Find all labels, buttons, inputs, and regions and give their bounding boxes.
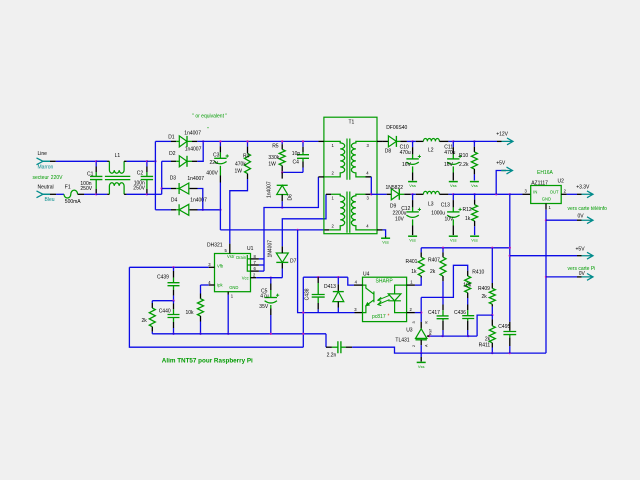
junction D6 to drain row <box>281 206 283 208</box>
svg-text:1W: 1W <box>268 161 276 167</box>
svg-text:1n4007: 1n4007 <box>185 147 202 153</box>
node C439/C440/2k <box>152 300 173 302</box>
svg-text:22u: 22u <box>210 160 219 166</box>
junction R409 top <box>491 247 493 249</box>
capacitor C1 100n 250V <box>95 161 97 166</box>
junction C3 top <box>219 140 221 142</box>
svg-text:L3: L3 <box>428 202 434 208</box>
U1 pin 1 GND <box>227 292 229 295</box>
aux pin2 stub <box>324 229 329 231</box>
svg-text:2.2n: 2.2n <box>327 352 337 358</box>
svg-text:470u: 470u <box>444 150 455 156</box>
junction R5 top <box>281 140 283 142</box>
svg-text:secteur: secteur <box>33 175 50 181</box>
svg-text:1n4007: 1n4007 <box>187 176 204 182</box>
wire Vfb row <box>129 266 208 268</box>
svg-text:Vfb: Vfb <box>217 264 224 269</box>
shunt regulator U3 TL431 <box>420 322 422 329</box>
svg-text:C1: C1 <box>87 171 94 177</box>
U2 GND wire down <box>545 204 547 210</box>
junction node A <box>154 160 156 162</box>
svg-text:2k: 2k <box>430 269 436 275</box>
U4 phototransistor <box>363 285 374 313</box>
wire R5/C4 bottom row <box>282 171 303 173</box>
U2 OUT wire and +3.3V output <box>561 193 567 195</box>
svg-text:C440: C440 <box>159 308 171 314</box>
junction vert1 <box>296 229 298 231</box>
capacitor C436 <box>467 298 469 305</box>
svg-text:TL431: TL431 <box>395 338 409 344</box>
svg-text:10k: 10k <box>186 310 195 316</box>
svg-text:0V: 0V <box>578 213 585 219</box>
diode D8 DF06S40 <box>383 140 389 142</box>
svg-text:500mA: 500mA <box>65 199 82 205</box>
wire Line to bridge node A <box>147 160 156 162</box>
junction ref <box>428 335 430 337</box>
svg-text:10k: 10k <box>463 282 472 288</box>
U1 pin 4 Ipk <box>209 284 215 286</box>
U1 Vcc row A <box>256 277 282 279</box>
svg-text:16V: 16V <box>444 162 454 168</box>
svg-text:D3: D3 <box>170 176 177 182</box>
svg-text:250V: 250V <box>133 185 145 191</box>
svg-text:L1: L1 <box>115 153 121 159</box>
resistor R410 10k <box>421 265 468 297</box>
junction +5V Pi <box>509 255 511 257</box>
resistor R407 2k <box>442 248 444 253</box>
svg-text:2k: 2k <box>482 294 488 300</box>
svg-text:D2: D2 <box>169 151 176 157</box>
junction R411 rail <box>491 352 493 354</box>
svg-text:1000u: 1000u <box>431 211 445 217</box>
diode D9 1N5822 <box>387 193 392 195</box>
svg-text:R10: R10 <box>459 153 468 159</box>
svg-text:470k: 470k <box>235 161 246 167</box>
svg-text:D1: D1 <box>168 135 175 141</box>
svg-text:D7: D7 <box>290 258 297 264</box>
ground C11 <box>449 181 458 183</box>
T1 core top <box>347 139 350 180</box>
svg-text:Alim TNT57 pour Raspberry Pi: Alim TNT57 pour Raspberry Pi <box>162 358 253 365</box>
junction D2 to bus <box>202 140 204 142</box>
svg-text:C436: C436 <box>454 310 466 316</box>
svg-text:1k: 1k <box>411 269 417 275</box>
junction C436 ref row <box>467 335 469 337</box>
svg-text:+3.3V: +3.3V <box>576 185 590 191</box>
svg-text:U3: U3 <box>406 328 413 334</box>
svg-text:T1: T1 <box>349 119 355 125</box>
T1 aux winding (bottom-left) <box>329 194 345 230</box>
svg-text:Vcc: Vcc <box>242 276 249 281</box>
junction divider mid <box>172 300 174 302</box>
IC U2 AZ1117 (EH16A) <box>531 186 562 204</box>
svg-text:R5: R5 <box>272 143 279 149</box>
wire C3 bottom to neg rail <box>219 183 221 230</box>
svg-text:pc817: pc817 <box>372 314 386 320</box>
T1 primary winding top <box>318 140 324 142</box>
left feedback loop wire <box>129 267 303 347</box>
svg-text:10V: 10V <box>395 216 405 222</box>
svg-text:OUT: OUT <box>550 190 559 195</box>
feedback row B <box>303 276 348 278</box>
T1 secondary winding top <box>351 141 377 177</box>
svg-text:+12V: +12V <box>496 131 508 137</box>
U1 pin 5 Vstr <box>229 244 231 254</box>
U1 pin 2 Vcc <box>251 277 257 279</box>
feedback top row <box>421 247 510 249</box>
U4 pin4 stub <box>354 284 363 286</box>
junction TL431 anode rail <box>420 352 422 354</box>
svg-text:D413: D413 <box>324 284 336 290</box>
wire pin4 to feedback row <box>348 277 354 285</box>
junction C5 rail <box>270 333 272 335</box>
svg-text:Vss: Vss <box>471 183 478 188</box>
bridge vertical B <box>161 161 163 194</box>
optocoupler U4 pc817 <box>363 277 407 321</box>
junction 0V tap <box>545 219 547 221</box>
diode D3 1n4007 <box>162 188 171 190</box>
ground C10 <box>408 181 417 183</box>
svg-text:Marron: Marron <box>38 164 54 170</box>
junction C440 rail <box>172 333 174 335</box>
resistor 2k left <box>151 301 153 303</box>
svg-text:Bleu: Bleu <box>45 197 55 203</box>
junction C1 bottom <box>95 193 97 195</box>
svg-text:1n4007: 1n4007 <box>267 181 273 198</box>
U4 pin2 stub <box>407 312 415 314</box>
junction pin2 <box>420 311 422 313</box>
capacitor C2 100n 250V <box>146 161 148 166</box>
L1 core <box>105 176 130 179</box>
svg-text:+5V: +5V <box>496 161 506 167</box>
wire Neutral to fuse <box>56 193 64 195</box>
resistor R409 2k <box>491 248 493 283</box>
svg-text:Vss: Vss <box>382 240 389 245</box>
U1 pin 3 Vfb <box>209 266 215 268</box>
capacitor C4 10p <box>302 141 304 146</box>
primary ground rail <box>152 333 326 335</box>
junction R4 top <box>246 140 248 142</box>
wire fuse to C1 <box>84 193 96 195</box>
resistor R5 330k 1W <box>281 141 283 144</box>
transformer T1 box <box>324 117 377 234</box>
svg-text:400V: 400V <box>206 171 218 177</box>
vertical primary gnd drop <box>298 230 355 313</box>
capacitor C3 22u 400V <box>219 141 221 146</box>
junction C438 top <box>317 276 319 278</box>
U4 pin1 stub <box>407 284 415 286</box>
junction R12 <box>473 193 475 195</box>
junction R5/C4/D6 <box>281 171 283 173</box>
junction C10 <box>411 140 413 142</box>
feedback vertical <box>302 277 304 347</box>
svg-text:GND: GND <box>542 196 551 201</box>
opto pin3 stub <box>355 312 363 314</box>
svg-text:D8: D8 <box>385 148 392 154</box>
svg-text:U4: U4 <box>363 272 370 278</box>
resistor R4 470k 1W <box>247 141 249 146</box>
svg-text:1N4007: 1N4007 <box>267 240 273 258</box>
rail down to 2.2n <box>325 334 327 347</box>
TL431 ref stub <box>427 335 429 337</box>
svg-text:GND: GND <box>229 285 238 290</box>
output +12V <box>497 140 502 142</box>
junction R407 top <box>442 247 444 249</box>
diode D4 1n4007 <box>155 209 171 211</box>
svg-text:10V: 10V <box>445 216 455 222</box>
svg-text:C4: C4 <box>293 160 300 166</box>
svg-text:U1: U1 <box>247 246 254 252</box>
svg-text:R401: R401 <box>406 259 418 265</box>
svg-text:D9: D9 <box>390 204 397 210</box>
ground R10 <box>470 181 479 183</box>
aux pin1 stub <box>326 193 331 195</box>
svg-text:R12: R12 <box>463 207 472 213</box>
svg-text:C2: C2 <box>137 171 144 177</box>
svg-text:C417: C417 <box>428 310 440 316</box>
svg-text:DH321: DH321 <box>207 242 223 248</box>
junction U1 gnd rail <box>227 333 229 335</box>
wire to U2 IN <box>510 193 523 195</box>
svg-text:250V: 250V <box>80 186 92 192</box>
resistor 10k <box>201 284 209 286</box>
junction C2 bottom <box>146 193 148 195</box>
wire T1 pin2 to drain <box>264 177 318 271</box>
U4 LED <box>395 285 407 294</box>
svg-text:Vss: Vss <box>418 364 425 369</box>
svg-text:Vstr: Vstr <box>227 254 235 259</box>
svg-text:DF06S40: DF06S40 <box>386 125 407 131</box>
wire R407 bottom to C417 <box>442 281 444 304</box>
junction R407/K-node <box>442 296 444 298</box>
TL431 ref row <box>429 335 477 337</box>
svg-text:Drain: Drain <box>236 255 247 260</box>
svg-text:D4: D4 <box>171 198 178 204</box>
svg-text:2: 2 <box>412 345 416 347</box>
junction C2 top <box>146 160 148 162</box>
U4 emission arrows <box>378 295 390 305</box>
resistor R411 2k <box>491 315 493 319</box>
junction C5 Vcc <box>270 277 272 279</box>
diode D1 1n4007 <box>155 140 171 142</box>
resistor R401 1k <box>420 248 422 253</box>
capacitor C417 <box>442 305 444 311</box>
diode D413 <box>337 277 339 284</box>
svg-text:R4: R4 <box>243 154 250 160</box>
svg-text:220V: 220V <box>51 175 63 181</box>
svg-text:10p: 10p <box>292 151 301 157</box>
junction C417 ref row <box>441 335 443 337</box>
svg-text:470u: 470u <box>400 150 411 156</box>
junction C1 top <box>95 160 97 162</box>
secondary gnd rail <box>352 347 546 353</box>
svg-text:SHARP: SHARP <box>376 279 394 285</box>
junction 10k rail <box>199 333 201 335</box>
ground TL431 <box>417 361 426 363</box>
junction sec windings <box>370 193 372 195</box>
ground C12 <box>408 235 417 237</box>
svg-text:Line: Line <box>38 151 48 157</box>
svg-text:35V: 35V <box>259 304 269 310</box>
svg-text:2.2k: 2.2k <box>459 162 469 168</box>
svg-text:R409: R409 <box>478 286 490 292</box>
junction C4 top <box>302 140 304 142</box>
junction +5V tap <box>495 193 497 195</box>
inductor L2 <box>413 140 416 142</box>
TL431 anode down <box>420 340 422 345</box>
wire R401 bottom to opto pin1 <box>415 278 421 286</box>
wire D3 right down to D4 row <box>198 189 203 210</box>
capacitor C439 <box>173 267 175 271</box>
svg-text:47u: 47u <box>260 293 269 299</box>
capacitor C5 47u 35V <box>270 278 272 284</box>
svg-text:Vss: Vss <box>450 238 457 243</box>
junction fb/pin3row <box>302 311 304 313</box>
svg-text:L2: L2 <box>428 148 434 154</box>
svg-text:Vss: Vss <box>471 238 478 243</box>
T1 5V secondary winding (bottom-right) <box>351 194 377 230</box>
R409 bottom / R411 top node <box>491 307 493 316</box>
junction D3/D4 <box>202 209 204 211</box>
wire Line to L1 <box>56 160 107 162</box>
svg-text:EH16A: EH16A <box>537 170 554 176</box>
capacitor C438 <box>317 277 319 283</box>
wire D7 top to aux winding <box>282 194 326 246</box>
ground R12 <box>470 235 479 237</box>
diode D2 1n4007 <box>162 160 171 162</box>
capacitor C440 <box>173 301 175 304</box>
junction +5V rail row <box>509 247 511 249</box>
top bus wire <box>197 140 318 142</box>
wire R4 bottom to Vstr <box>230 179 248 244</box>
junction R409/R411/ref <box>491 314 493 316</box>
svg-text:1n4007: 1n4007 <box>184 131 201 137</box>
junction D3 tap <box>161 187 163 189</box>
junction C439 top <box>172 266 174 268</box>
svg-text:C439: C439 <box>157 275 169 281</box>
inductor L3 <box>413 193 416 195</box>
junction C13 <box>452 193 454 195</box>
junction 0V Pi <box>545 276 547 278</box>
input connector Line (Marron) <box>37 158 51 165</box>
wire pin4 top-sec down to 5V sec row <box>370 177 372 194</box>
fuse F1 500mA <box>64 190 78 198</box>
svg-text:Ipk: Ipk <box>217 282 223 287</box>
svg-text:IN: IN <box>533 190 537 195</box>
svg-text:C3: C3 <box>213 153 220 159</box>
svg-text:3: 3 <box>412 321 416 323</box>
junction neg rail C3 <box>219 209 221 211</box>
diode D6 1n4007 <box>281 172 283 178</box>
wire sec gnd pin4 <box>383 230 386 236</box>
svg-text:Vss: Vss <box>409 238 416 243</box>
svg-text:16V: 16V <box>402 162 412 168</box>
svg-text:U2: U2 <box>558 179 565 185</box>
svg-text:1k: 1k <box>465 216 471 222</box>
junction fb/rail <box>302 333 304 335</box>
svg-text:Vss: Vss <box>450 183 457 188</box>
svg-text:F1: F1 <box>65 184 71 190</box>
svg-text:Neutral: Neutral <box>38 185 54 191</box>
svg-text:1n4007: 1n4007 <box>190 198 207 204</box>
diode D7 1N4007 <box>281 269 283 278</box>
svg-text:1W: 1W <box>235 169 243 175</box>
svg-text:0V: 0V <box>579 271 586 277</box>
T1 core bottom <box>347 192 350 233</box>
input connector Neutral (Bleu) <box>37 191 51 198</box>
ground sec pin4 <box>381 237 390 239</box>
junction +5V rail <box>509 193 511 195</box>
svg-text:330k: 330k <box>268 155 279 161</box>
junction R10 <box>473 140 475 142</box>
svg-text:" or equivalent ": " or equivalent " <box>192 113 227 119</box>
IC U1 DH321 <box>215 254 251 292</box>
svg-text:vers carte téléinfo: vers carte téléinfo <box>568 206 608 212</box>
junction C12 <box>411 193 413 195</box>
svg-text:D6: D6 <box>288 194 294 201</box>
pin fuse right <box>78 193 84 195</box>
svg-text:+5V: +5V <box>576 246 586 252</box>
junction D413 top <box>337 276 339 278</box>
svg-text:Ref: Ref <box>429 328 433 335</box>
bridge vertical A <box>154 141 156 209</box>
svg-text:*: * <box>388 314 390 320</box>
svg-text:C438: C438 <box>305 288 311 300</box>
svg-text:": " <box>207 127 209 133</box>
svg-text:AZ1117: AZ1117 <box>531 181 548 187</box>
svg-text:R407: R407 <box>428 257 440 263</box>
junction C495 rail <box>509 352 511 354</box>
wire D2 cathode up to bus <box>197 141 203 161</box>
wire opto pin2 to TL431 K <box>420 297 422 322</box>
wire D4 row to C3 bottom <box>198 209 221 211</box>
Y-capacitor 2.2n <box>326 346 332 348</box>
wire Neutral to bridge node B <box>147 193 162 195</box>
svg-text:R411: R411 <box>479 342 491 348</box>
svg-text:C13: C13 <box>441 202 450 208</box>
U1 drain pins 8,7,6 <box>247 255 250 271</box>
junction C11 <box>452 140 454 142</box>
L1 bottom winding <box>96 193 107 195</box>
svg-text:R410: R410 <box>472 269 484 275</box>
svg-text:1N5822: 1N5822 <box>386 185 404 191</box>
ground C13 <box>449 235 458 237</box>
svg-text:C495: C495 <box>498 324 510 330</box>
svg-text:2k: 2k <box>142 318 148 324</box>
neg rail / aux return row <box>220 229 324 231</box>
svg-text:Vss: Vss <box>409 183 416 188</box>
